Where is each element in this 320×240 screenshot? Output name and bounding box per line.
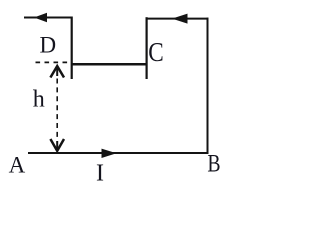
wire right vertical B-leg <box>207 18 209 154</box>
stem of up arrowhead <box>56 66 58 76</box>
wire top-right horizontal <box>147 18 209 20</box>
arrowhead up of h dimension (open V) <box>50 66 64 77</box>
wire shelf D-C horizontal <box>71 63 148 66</box>
wire mid vertical C-leg <box>146 17 148 79</box>
arrow current direction top-right (pointing left) <box>172 14 188 24</box>
stem of down arrowhead <box>56 141 58 151</box>
wire top-left horizontal <box>24 17 73 19</box>
arrow current direction top-left (pointing left) <box>34 13 47 23</box>
svg-text:C: C <box>148 37 164 67</box>
svg-text:B: B <box>207 151 220 178</box>
arrow current I on A-B wire (pointing right) <box>102 149 117 158</box>
svg-text:h: h <box>33 87 45 113</box>
wire bottom A-B horizontal <box>28 152 209 154</box>
wire left vertical D-leg <box>71 17 73 80</box>
dimension line h (dashed vertical with arrows both ends) <box>56 79 58 140</box>
svg-text:A: A <box>9 153 26 178</box>
dashed reference line at D level <box>36 61 72 63</box>
arrowhead down of h dimension (open V) <box>50 139 64 151</box>
svg-text:D: D <box>40 33 57 58</box>
svg-text:I: I <box>96 161 104 187</box>
